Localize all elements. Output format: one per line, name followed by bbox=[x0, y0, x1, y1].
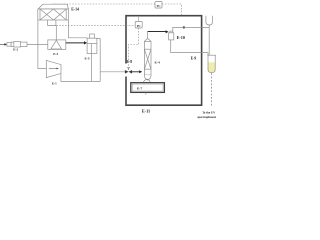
svg-text:TC: TC bbox=[156, 4, 160, 8]
wire E-10 vent to funnel bbox=[173, 27, 209, 31]
svg-text:E-7: E-7 bbox=[137, 87, 143, 91]
wire E-10 outlet to sample bottle (stream E-9) bbox=[171, 40, 208, 56]
instrument PC (pressure controller) bbox=[56, 25, 135, 27]
svg-text:E-10: E-10 bbox=[177, 35, 185, 40]
reboiler E-7 (heating mantle box) bbox=[131, 83, 165, 93]
oven enclosure box (thick border with gap at E-8 line) bbox=[126, 16, 202, 106]
compressor E-1 bbox=[46, 60, 61, 77]
svg-text:E-14: E-14 bbox=[71, 7, 79, 11]
wire feed line with arrow into E-2 bbox=[0, 43, 5, 45]
wire funnel spout down to bottle bbox=[208, 25, 210, 56]
sample bottle (yellow) bbox=[208, 62, 215, 72]
valve tick on vent line bbox=[183, 26, 185, 28]
condenser E-10 (small vessel) bbox=[169, 31, 174, 40]
svg-text:E-9: E-9 bbox=[191, 56, 197, 60]
svg-text:PC: PC bbox=[137, 24, 141, 28]
column E-4 (packed column) bbox=[144, 38, 151, 80]
wire junction to control valve bbox=[100, 71, 125, 73]
wire E-14 right outlet down to vessel E-5 bbox=[68, 20, 87, 38]
svg-text:E-1: E-1 bbox=[52, 81, 57, 85]
wire dashed PC signal to valve bbox=[129, 28, 139, 67]
wire E-5 top outlet down to valve feed bbox=[97, 39, 100, 72]
wire column riser bbox=[147, 32, 149, 39]
evaporator E-3 (box with triangle) bbox=[48, 40, 66, 50]
heater E-2 (inline element) bbox=[7, 42, 27, 47]
svg-text:E-8: E-8 bbox=[127, 60, 133, 64]
wire dashed sample line to analyzer bbox=[210, 73, 212, 106]
wire E-5 bottom drain to compressor outlet line bbox=[90, 54, 92, 82]
svg-text:E-4: E-4 bbox=[155, 61, 161, 65]
vessel E-14 (horizontal drum with X internals and hood) bbox=[38, 4, 69, 20]
stand tick under E-7 bbox=[145, 92, 147, 94]
wire arrow E-3 to E-5 bbox=[66, 42, 85, 44]
svg-text:E-3: E-3 bbox=[53, 52, 58, 56]
svg-text:E-5: E-5 bbox=[85, 56, 90, 60]
wire arrow column overhead to condenser E-10 bbox=[148, 31, 166, 33]
wire arrow valve to column bbox=[132, 71, 140, 73]
funnel bbox=[206, 16, 213, 25]
instrument TC (temperature controller) bbox=[52, 3, 155, 5]
wire E-14 left outlet down to compressor E-1 inlet bbox=[38, 20, 46, 69]
svg-text:spectrophotometer: spectrophotometer bbox=[197, 115, 216, 119]
wire compressor outlet to valve feed junction bbox=[61, 72, 100, 82]
wire dashed TC signal to oven bbox=[162, 4, 181, 16]
svg-text:E-2: E-2 bbox=[13, 47, 18, 51]
svg-text:E-11: E-11 bbox=[142, 108, 150, 113]
control valve E-8 bbox=[125, 70, 129, 74]
wire E-14 drain header to E-3 bbox=[48, 20, 57, 40]
vessel E-5 (small separator) bbox=[87, 34, 97, 54]
wire E-2 to E-3 bbox=[27, 43, 48, 45]
wire PC stub to oven top bbox=[138, 16, 140, 22]
flask (round bottom, under column) bbox=[143, 80, 150, 87]
